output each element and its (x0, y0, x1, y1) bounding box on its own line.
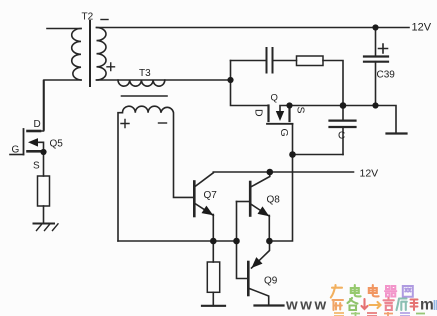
svg-text:D: D (34, 119, 41, 130)
svg-text:12V: 12V (360, 168, 379, 180)
svg-text:G: G (278, 129, 290, 137)
svg-text:Q8: Q8 (267, 195, 281, 206)
svg-text:Q5: Q5 (50, 139, 64, 150)
svg-text:Q7: Q7 (204, 190, 218, 201)
svg-text:S: S (33, 161, 40, 172)
svg-text:www: www (285, 297, 329, 314)
svg-text:12V: 12V (412, 22, 432, 34)
svg-text:m: m (420, 297, 434, 314)
svg-text:C: C (338, 131, 345, 142)
svg-text:Q9: Q9 (264, 276, 278, 287)
svg-text:D: D (253, 109, 265, 117)
svg-text:C39: C39 (377, 70, 396, 81)
svg-text:Q: Q (271, 93, 278, 104)
svg-text:G: G (12, 145, 20, 156)
svg-text:S: S (295, 107, 307, 114)
svg-text:T2: T2 (82, 12, 94, 23)
svg-text:T3: T3 (139, 68, 151, 79)
